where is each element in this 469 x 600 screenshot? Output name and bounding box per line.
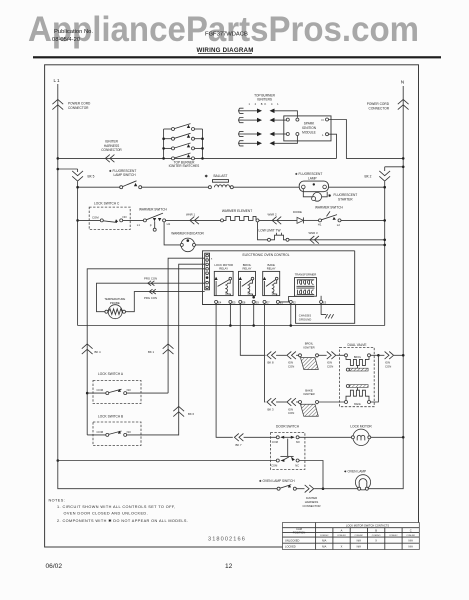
EOC connector strip [205,253,213,290]
warmer switch pole 2 [303,205,343,227]
svg-text:L1: L1 [137,223,141,227]
svg-text:LOCKED: LOCKED [285,545,296,549]
wire element drop to low limit [258,222,268,240]
svg-text:✱ OVEN LAMP: ✱ OVEN LAMP [344,470,366,474]
svg-text:COM: COM [97,430,104,434]
svg-text:STARTER: STARTER [338,197,353,201]
connector IGN CON valve right [378,352,404,369]
svg-text:BK 2: BK 2 [365,175,372,179]
svg-text:COM-NC: COM-NC [320,535,329,537]
wire L1 drop to lamp line [58,461,277,489]
svg-text:1. CIRCUIT SHOWN WITH ALL CON: 1. CIRCUIT SHOWN WITH ALL CONTROLS SET T… [57,505,176,509]
svg-text:L: L [322,133,324,137]
wire bake igniter to valve [319,401,345,403]
wire indicator to neutral [196,244,387,247]
wire warmer feed [166,219,222,221]
svg-text:WARMER INDICATOR: WARMER INDICATOR [171,232,204,236]
svg-text:N/A: N/A [322,545,327,549]
wire ballast to lamp [233,186,299,188]
ballast [205,173,234,188]
junction L1 to BK5 [57,168,78,171]
svg-text:LOCK SWITCH A: LOCK SWITCH A [98,372,124,376]
svg-text:BK 3: BK 3 [268,407,275,411]
svg-text:✱: ✱ [205,173,209,178]
footer date [46,563,63,570]
connector BK 1 [148,344,174,354]
connector igniter harness [101,140,122,163]
svg-text:N: N [321,118,323,122]
svg-text:E3: E3 [323,301,327,305]
lock switch C [76,201,130,229]
wire valves to IGN CON right [371,354,380,402]
svg-text:POSITION: POSITION [293,530,306,534]
svg-text:COM: COM [92,216,99,220]
wire neutral rail [384,182,386,326]
svg-text:06/02: 06/02 [46,563,63,570]
svg-text:318002166: 318002166 [208,537,246,543]
connector WNR 1 [186,213,199,225]
svg-text:H1: H1 [318,223,322,227]
diode [293,210,303,223]
door switch [271,425,305,470]
svg-text:FGF377WDACB: FGF377WDACB [205,32,248,38]
svg-text:N/A: N/A [357,545,362,549]
svg-text:IGNITER: IGNITER [303,345,314,349]
EOC terminals [215,296,327,305]
svg-text:IGNITER: IGNITER [303,392,314,396]
svg-text:OVEN DOOR CLOSED AND UNLOCKED.: OVEN DOOR CLOSED AND UNLOCKED. [64,511,149,515]
warmer indicator [164,222,204,252]
wire door NO to lock motor [299,436,352,438]
svg-text:BAKE: BAKE [354,403,361,406]
fluorescent starter [303,189,357,202]
svg-text:12: 12 [225,563,233,570]
svg-text:LOCK MOTOR SWITCH CONTACTS: LOCK MOTOR SWITCH CONTACTS [346,524,389,528]
connector IGN CON broil left [276,352,298,369]
node L1 [54,78,61,83]
svg-text:COM-NC: COM-NC [389,535,398,537]
svg-text:N/A: N/A [409,545,414,549]
power cord connector N [367,99,409,110]
wire LSB NO to BK6 rail [127,434,179,436]
bake relay [263,263,280,296]
svg-text:IGNITION: IGNITION [302,126,317,130]
lock motor [350,424,372,445]
part number 318002166 [208,537,246,543]
broil igniter [299,342,319,370]
svg-text:E8: E8 [242,301,246,305]
svg-text:IGNITER SWITCHES: IGNITER SWITCHES [169,164,200,168]
svg-text:N/A: N/A [357,538,362,542]
svg-text:CONNECTOR: CONNECTOR [68,106,89,110]
thick top rule [33,56,441,58]
svg-text:LOCK MOTOR: LOCK MOTOR [350,424,372,428]
svg-text:COM: COM [97,388,104,392]
svg-text:L1: L1 [54,78,61,83]
svg-text:Publication No.: Publication No. [54,29,93,35]
wire lock motor to N [371,436,405,439]
igniter wires to module [275,111,298,118]
svg-text:CAM: CAM [296,527,302,531]
warmer element [221,209,260,222]
wire lamp to neutral [329,186,387,189]
svg-text:E2: E2 [293,301,297,305]
svg-text:COM-NO: COM-NO [337,535,346,537]
wire neutral return line [78,303,385,326]
wire N rail [402,86,404,437]
svg-text:CONNECTOR: CONNECTOR [303,504,321,508]
svg-text:L2: L2 [337,223,341,227]
svg-text:BK 5: BK 5 [88,175,95,179]
svg-text:H1: H1 [167,222,171,226]
svg-text:X: X [375,538,377,542]
wire module N to neutral [329,120,404,159]
svg-text:PROBE: PROBE [110,301,120,305]
watermark AppliancePartsPros.com [28,10,419,49]
wire to ballast [142,186,209,188]
dual valve box [340,343,375,406]
svg-text:RELAY: RELAY [243,267,252,271]
svg-text:N/A: N/A [322,538,327,542]
page frame placeholder [33,47,441,547]
lock switch A [86,372,141,404]
svg-text:FLUORESCENT: FLUORESCENT [334,193,358,197]
wire L2 to neutral [341,219,386,222]
svg-text:PRG CON: PRG CON [144,296,157,300]
svg-text:N/A: N/A [409,538,414,542]
warmer switch pole 1 [123,208,171,232]
svg-text:✱: ✱ [328,193,332,198]
svg-text:PRG CON: PRG CON [144,277,157,281]
svg-text:X: X [341,545,343,549]
footer page number [225,563,233,570]
svg-text:UNLOCKED: UNLOCKED [285,538,300,542]
svg-text:1 2 BK 4 1: 1 2 BK 4 1 [248,102,280,106]
svg-text:COM: COM [272,440,278,444]
connector IGN CON bake left [276,398,298,415]
svg-text:DIODE: DIODE [293,210,302,214]
svg-text:N: N [401,80,405,86]
svg-text:NO: NO [123,215,128,219]
svg-text:COM-NO: COM-NO [372,535,381,537]
svg-text:2. COMPONENTS WITH ✱ DO NOT A: 2. COMPONENTS WITH ✱ DO NOT APPEAR ON AL… [57,519,188,523]
svg-text:BK 7: BK 7 [236,443,243,447]
wire LSA NO to BK1 rail [127,392,168,394]
oven lamp switch [259,479,296,490]
svg-text:CON: CON [288,411,294,415]
wire EOC pin to BK4 rail [87,269,205,435]
connector BK 4 [82,344,101,354]
wire E8 to broil line [240,303,265,355]
svg-text:COM: COM [271,463,277,467]
outer diagram border [45,65,419,547]
junction N bus [402,157,405,160]
notes [49,499,189,524]
connector BK 7 [234,434,276,448]
transformer [295,272,317,296]
svg-text:LOW LIMIT TW: LOW LIMIT TW [259,229,281,233]
svg-text:COM-NC: COM-NC [355,535,364,537]
svg-text:BK 1: BK 1 [148,350,155,354]
svg-text:BK 8: BK 8 [268,361,275,365]
connector IGN CON broil right [319,352,345,369]
svg-text:E5: E5 [232,301,236,305]
broil valve solenoid [345,354,371,371]
svg-text:LAMP: LAMP [308,177,317,181]
svg-text:COM-NO: COM-NO [406,535,415,537]
svg-text:8: 8 [211,258,213,260]
svg-text:CON: CON [385,364,391,368]
low limit thermostat [259,229,290,242]
connector PRG CON upper [97,277,205,312]
svg-text:CONNECTOR: CONNECTOR [369,106,390,110]
svg-text:P: P [150,224,152,228]
wire low limit to neutral [289,239,386,242]
lock motor switch contacts table [283,523,420,550]
svg-text:E4: E4 [218,301,222,305]
wire door NC drop [299,461,324,491]
svg-text:MODULE: MODULE [302,131,316,135]
svg-text:DUAL VALVE: DUAL VALVE [347,343,366,347]
svg-text:WARMER SWITCH: WARMER SWITCH [315,205,344,209]
spark ignition module [284,116,331,141]
svg-text:✱ OVEN LAMP SWITCH: ✱ OVEN LAMP SWITCH [259,479,295,483]
svg-text:CONNECTOR: CONNECTOR [101,148,122,152]
svg-text:A: A [341,529,343,533]
svg-text:RELAY: RELAY [219,267,228,271]
lock switch B [87,415,141,446]
wire L1 rail [57,84,59,461]
svg-text:WARMER SWITCH: WARMER SWITCH [139,208,168,212]
connector BK 3 [267,398,276,411]
svg-text:E9: E9 [256,301,260,305]
svg-text:LAMP SWITCH: LAMP SWITCH [114,173,137,177]
svg-text:B: B [375,529,377,533]
svg-text:WNR 1: WNR 1 [186,213,195,217]
svg-text:DOOR SWITCH: DOOR SWITCH [276,425,300,429]
svg-text:08-05/4-20: 08-05/4-20 [52,37,80,43]
connector PRG CON lower [126,289,205,312]
wire EOC pin to BK1 rail [168,258,205,393]
wire BK5 rail [77,182,79,326]
svg-text:ELECTRONIC OVEN CONTROL: ELECTRONIC OVEN CONTROL [243,253,290,257]
connector BK 8 [267,352,276,365]
connector BK 5 [72,169,94,181]
fluorescent lamp switch [76,169,141,189]
chassis ground sub-box [299,303,334,321]
svg-text:BROIL: BROIL [354,356,362,359]
svg-text:GROUND: GROUND [299,317,311,321]
node N [401,80,405,86]
bake igniter [299,388,319,416]
svg-text:BALLAST: BALLAST [214,174,228,178]
svg-text:BK 4: BK 4 [95,350,102,354]
wire lamp to N rail [368,437,403,488]
svg-text:✱ FLUORESCENT: ✱ FLUORESCENT [295,172,322,176]
svg-text:RELAY: RELAY [267,267,276,271]
junction L1 bus [57,157,60,160]
svg-text:BK 6: BK 6 [188,412,195,416]
svg-text:C: C [410,529,412,533]
svg-text:NO: NO [127,388,132,392]
svg-text:TRANSFORMER: TRANSFORMER [295,272,317,276]
svg-text:CON: CON [327,364,333,368]
electronic oven control box [203,251,355,323]
wire E7 to bake line [265,303,266,402]
connector WNR 2 [268,212,282,224]
connector WNR 3 [309,231,319,244]
bake valve solenoid [345,385,371,406]
svg-text:WNR 2: WNR 2 [268,212,277,216]
svg-text:LOCK SWITCH C: LOCK SWITCH C [94,201,120,205]
top burner igniter switches [162,124,204,169]
svg-text:NO: NO [127,430,132,434]
svg-text:NOTES:: NOTES: [49,499,66,503]
wire E4 to door switch [216,303,233,437]
connector BK 2 [365,167,391,181]
broil relay [239,263,256,296]
temperature probe [104,297,125,319]
top burner igniters [239,93,298,145]
power cord connector L1 [52,99,91,109]
wire EOC pin to BK6 rail [179,264,205,435]
fluorescent lamp [295,172,329,192]
svg-text:NC: NC [295,463,299,467]
svg-text:E7: E7 [266,301,270,305]
connector BK 6 [173,406,194,416]
connector igniter harness bottom [296,485,357,508]
svg-text:IGNITERS: IGNITERS [257,97,272,101]
svg-text:CON: CON [288,364,294,368]
lock motor relay [214,263,233,296]
svg-text:LOCK SWITCH B: LOCK SWITCH B [98,415,123,419]
svg-text:E1: E1 [280,301,284,305]
wire bottom bus [57,459,277,462]
svg-text:WNR 3: WNR 3 [309,231,318,235]
oven lamp [344,470,371,491]
wire top bus [58,157,337,159]
svg-text:NO: NO [296,440,300,444]
wire element to WNR2 [259,219,297,221]
junction N to BK2 [385,166,405,169]
svg-text:SPARK: SPARK [304,121,315,125]
svg-text:WARMER ELEMENT: WARMER ELEMENT [222,209,252,213]
wire module L to bus [329,134,337,158]
